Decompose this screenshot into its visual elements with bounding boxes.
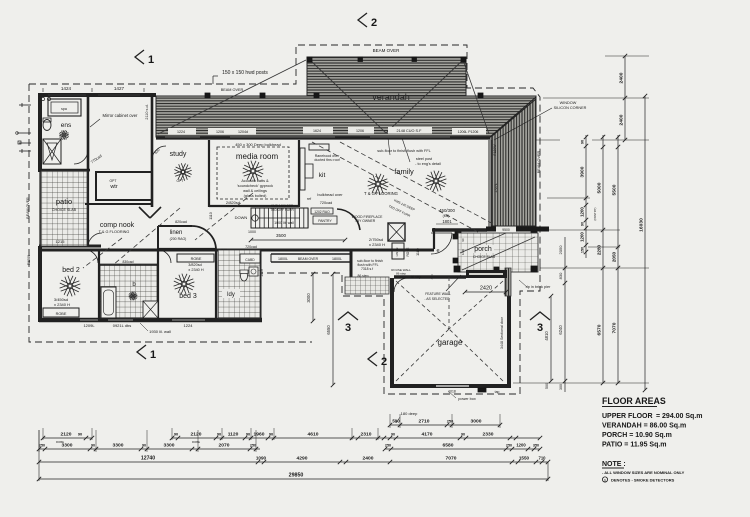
entry steps bbox=[345, 277, 389, 294]
floor areas porch bbox=[602, 432, 672, 439]
right dim col C bbox=[612, 135, 621, 385]
section marker 3 left bbox=[338, 312, 358, 334]
wall entry/porch bbox=[433, 228, 435, 249]
right ext line 3 bbox=[536, 139, 649, 141]
comp nook diagonal bbox=[106, 208, 180, 271]
patio tiled floor bbox=[41, 171, 87, 246]
ens shower bbox=[43, 139, 61, 164]
label 2110 rotated bbox=[145, 104, 149, 119]
bottom row1 right bbox=[388, 419, 502, 428]
right ext line 7 bbox=[513, 382, 649, 384]
kit tall bench bbox=[300, 148, 305, 190]
label 820 door bbox=[221, 248, 227, 252]
linen curved wall bbox=[192, 226, 216, 250]
entry threshold recess bbox=[466, 270, 507, 278]
wall ens bottom bbox=[39, 169, 90, 172]
porch tiles bbox=[458, 233, 538, 272]
dim 1424 bbox=[43, 86, 92, 92]
note line 2 bbox=[602, 477, 674, 483]
window 0921L bbox=[108, 319, 133, 321]
right ext line 6 bbox=[540, 267, 649, 269]
bottom row5 29850 bbox=[37, 473, 550, 482]
band window 1624 bbox=[300, 136, 335, 138]
verandah hip into band right bbox=[463, 60, 489, 134]
kit label bbox=[319, 172, 326, 179]
window 1224 bed3 bbox=[172, 319, 205, 321]
band label patches bbox=[168, 127, 486, 135]
bath shower bbox=[143, 301, 158, 318]
ens label bbox=[61, 122, 72, 129]
bed3 fan bbox=[174, 274, 195, 295]
post leader 150x150 bbox=[213, 70, 268, 84]
verandah post f bbox=[478, 93, 483, 98]
left edge mark 2 bbox=[16, 132, 31, 135]
step note bbox=[357, 274, 368, 278]
stairs treads bbox=[251, 208, 308, 228]
note title bbox=[602, 461, 626, 468]
media acoustic note bbox=[237, 179, 273, 198]
bath walls bbox=[99, 250, 158, 320]
kit rangehood note bbox=[314, 154, 340, 162]
family glass wall right bbox=[489, 140, 492, 228]
family fan 2 bbox=[426, 171, 447, 192]
patio dim 1215 bbox=[56, 239, 66, 244]
garage bottom fittings bbox=[436, 386, 499, 394]
fireplace hob note bbox=[270, 204, 294, 212]
garage door dim bbox=[463, 286, 508, 295]
mirror cabinet note bbox=[90, 113, 138, 127]
hall angled walls bbox=[139, 207, 161, 218]
wall left ens bbox=[38, 93, 42, 172]
band window labels bbox=[177, 129, 478, 134]
label 720cad small bbox=[245, 245, 257, 249]
bed3 door arc bbox=[158, 250, 171, 263]
eaves dashed outline left/bottom bbox=[29, 84, 312, 342]
window 1209L bbox=[80, 319, 98, 321]
band window 2148 bbox=[370, 136, 450, 138]
note line 1 bbox=[602, 470, 685, 475]
linen walls bbox=[158, 226, 192, 249]
dim 1427 bbox=[114, 86, 144, 92]
right dim col B bbox=[597, 135, 606, 385]
bed3 label bbox=[179, 293, 197, 300]
verandah hip roof diagonal left bbox=[309, 59, 386, 133]
bedroom corridor wall bbox=[39, 249, 351, 252]
porch left tiny dims bbox=[461, 238, 465, 255]
ens door arc bbox=[74, 150, 88, 164]
family t&g bbox=[364, 191, 398, 196]
verandah post d bbox=[307, 57, 312, 62]
right dim col E bbox=[639, 94, 648, 392]
family note steel post bbox=[402, 138, 441, 166]
label 1009 rotated bbox=[260, 269, 264, 277]
kit 1202 rao bbox=[311, 208, 333, 214]
left edge mark 3 bbox=[18, 141, 31, 144]
verandah corner mitre seam bbox=[490, 97, 536, 137]
band window 2048 bbox=[230, 136, 300, 138]
beam over label left small bbox=[221, 88, 244, 92]
right ext line 4 bbox=[547, 197, 590, 199]
floor areas verandah bbox=[602, 423, 686, 430]
verandah roof upper hatched block bbox=[307, 57, 466, 97]
ens wc bbox=[43, 118, 51, 131]
linen cupboard entry bbox=[392, 243, 404, 259]
garage roof dashed d bbox=[449, 329, 503, 381]
verandah post e bbox=[461, 57, 466, 62]
garage bottom wall bbox=[390, 384, 511, 388]
garage roof dashed a bbox=[396, 281, 449, 329]
f1209 rotated bbox=[27, 255, 31, 265]
garage left wall bbox=[390, 278, 394, 386]
comp nook label bbox=[99, 222, 135, 234]
section marker 1 bottom bbox=[137, 345, 156, 361]
ens basin fan bbox=[59, 130, 69, 140]
window labels bottom wall bbox=[83, 323, 193, 328]
verandah main hatched band bbox=[156, 96, 536, 137]
linen bottom wall bbox=[158, 248, 216, 250]
sd note 2/750 bbox=[369, 237, 385, 247]
family fan 1 bbox=[368, 174, 389, 195]
wall top-left exterior bbox=[39, 93, 156, 97]
media walls left bbox=[208, 140, 210, 207]
comp nook door arc bbox=[88, 233, 102, 247]
bottom row2 left bbox=[41, 432, 94, 441]
wall left bed2 bbox=[38, 246, 42, 322]
right ext line top bbox=[605, 55, 649, 57]
porch bottom posts bbox=[454, 266, 537, 272]
family raked ceiling line 2 bbox=[340, 142, 497, 226]
label 450 rotated bbox=[430, 274, 434, 279]
media walls right bbox=[298, 140, 300, 207]
patio left edge bbox=[39, 172, 41, 246]
floor areas title bbox=[602, 396, 666, 407]
media bulkhead dashed rect bbox=[217, 147, 289, 199]
section marker 1 top bbox=[135, 50, 154, 66]
right dim col A pantry note bbox=[593, 207, 597, 220]
verandah post e2 bbox=[358, 57, 363, 62]
feature wall note bbox=[424, 275, 461, 301]
eaves dashed outline top/right bbox=[29, 45, 540, 264]
stairs down label bbox=[235, 215, 259, 221]
post leader dash bbox=[218, 71, 222, 73]
ens spa bbox=[48, 99, 81, 116]
verandah post e3 bbox=[412, 57, 417, 62]
kit pantry bbox=[313, 216, 337, 224]
kit island bench bbox=[271, 254, 351, 262]
media wall bottom bbox=[209, 205, 299, 207]
floor areas upper bbox=[602, 413, 703, 420]
bottom left vert line bbox=[38, 430, 40, 481]
study label bbox=[170, 151, 187, 158]
wall patio right bbox=[87, 172, 89, 247]
kit bench top bbox=[309, 144, 329, 150]
family note subfloor bbox=[377, 138, 431, 155]
bottom right vert line bbox=[547, 462, 549, 481]
bath door label bbox=[122, 260, 133, 264]
band window 1224 bbox=[165, 136, 200, 138]
dim 3500 bbox=[248, 230, 347, 242]
hall diagonal bbox=[195, 193, 253, 240]
left edge mark 4 bbox=[19, 149, 31, 153]
linen label bbox=[170, 220, 187, 241]
dim 6240 vertical bbox=[558, 237, 567, 392]
garage label bbox=[438, 338, 463, 347]
label 1110 rotated bbox=[209, 212, 213, 219]
bed3 wall right bbox=[215, 250, 217, 320]
garage roof dashed c bbox=[396, 329, 449, 381]
dim 6550 vertical bbox=[326, 272, 335, 387]
section marker 2 top bbox=[358, 13, 377, 29]
left edge mark 1 bbox=[19, 103, 31, 107]
study fan bbox=[174, 163, 191, 180]
bottom row4 bbox=[37, 456, 550, 465]
porch diagonal 1 bbox=[462, 237, 535, 270]
porch diagonal 2 bbox=[460, 233, 506, 253]
bedroom bottom exterior wall bbox=[39, 318, 262, 323]
bottom extension lines bbox=[39, 414, 500, 452]
section marker 2 mid bbox=[368, 352, 387, 368]
media fan bbox=[243, 161, 264, 182]
verandah hip into band left bbox=[158, 60, 306, 134]
bottom row2 mid bbox=[170, 432, 542, 441]
bed2 fan bbox=[60, 276, 81, 297]
porch bottom wall bbox=[466, 274, 500, 278]
verandah hip roof diagonal right bbox=[386, 59, 464, 133]
wall ens/wir right bbox=[87, 95, 90, 172]
comp nook wir bottom wall bbox=[85, 203, 152, 205]
bath tiles bbox=[100, 264, 158, 318]
right dim col A bbox=[580, 135, 589, 258]
wall below verandah band bbox=[156, 136, 490, 139]
porch beam label bbox=[496, 227, 516, 233]
bottom row3 right bbox=[383, 443, 542, 452]
right ext line 2 bbox=[543, 97, 649, 99]
family bottom wall bbox=[351, 250, 434, 280]
bed2 sd note bbox=[54, 297, 70, 307]
dim 450/300 bbox=[436, 208, 458, 224]
entry door arc bbox=[431, 233, 452, 254]
label 1180 rotated bbox=[416, 248, 420, 256]
wall bedroom right bbox=[259, 249, 262, 322]
bath label bbox=[129, 282, 138, 300]
bed2 door arc bbox=[85, 250, 98, 263]
wir box bbox=[96, 172, 152, 200]
stairs wall note bbox=[274, 221, 294, 225]
family raked text bbox=[388, 198, 416, 218]
ldy wc bbox=[240, 270, 248, 281]
entry label bbox=[436, 248, 439, 254]
ldy cabd bbox=[240, 254, 260, 263]
porch label bbox=[470, 245, 496, 259]
porch top beam bbox=[486, 227, 549, 232]
media room label bbox=[236, 152, 279, 161]
bed2 robe bbox=[43, 308, 79, 317]
ldy sink bbox=[249, 267, 258, 276]
label robe rotated bbox=[406, 247, 410, 256]
verandah post a bbox=[205, 93, 210, 98]
wall patio bottom bbox=[39, 245, 101, 248]
bottom row3 left bbox=[37, 443, 260, 452]
stairs arrow bbox=[258, 217, 300, 219]
porch top wall bbox=[432, 228, 487, 232]
section marker 3 right bbox=[530, 312, 550, 334]
right band rotated labels bbox=[493, 144, 498, 193]
garage roof dashed b bbox=[449, 281, 503, 329]
garage 86 step note bbox=[391, 268, 421, 279]
window silicon corner note bbox=[494, 101, 587, 140]
power box note bbox=[448, 391, 476, 401]
bed3 robe bbox=[177, 254, 214, 272]
garage top wall bbox=[394, 275, 466, 278]
garage roof dashed vertical bbox=[448, 277, 450, 329]
dim 4810 vertical bbox=[544, 294, 553, 389]
media bulkhead note bbox=[235, 142, 281, 147]
verandah post h bbox=[455, 231, 461, 237]
subfloor note entry bbox=[357, 259, 383, 271]
bottom row2 robe2 bbox=[192, 440, 200, 444]
eaves dashed near porch bbox=[258, 264, 540, 394]
bottom row2 robe bbox=[56, 440, 64, 444]
ldy label bbox=[222, 289, 240, 298]
patio label bbox=[52, 197, 77, 212]
family raked ceiling line 1 bbox=[312, 142, 478, 232]
dim 3000 vertical bbox=[306, 272, 315, 323]
verandah label bbox=[372, 92, 410, 102]
window 1424 line bbox=[48, 94, 86, 96]
bed2 label bbox=[62, 267, 80, 274]
right ext line porch bbox=[588, 246, 620, 248]
verandah post c bbox=[314, 93, 319, 98]
fireplace note bbox=[352, 215, 383, 223]
beam over label top box bbox=[373, 48, 401, 53]
right dim col D bbox=[619, 54, 628, 142]
note 1930 wall bbox=[140, 323, 171, 334]
verandah post b bbox=[260, 93, 265, 98]
kit ref box bbox=[305, 164, 313, 201]
garage right wall bbox=[505, 268, 511, 386]
bath tub bbox=[101, 287, 116, 318]
beam over rotated patio bbox=[26, 197, 30, 219]
wir note 770cad bbox=[90, 154, 103, 164]
floor areas patio bbox=[602, 442, 667, 449]
pantry curved wall bbox=[337, 209, 360, 230]
kit bulkhead note bbox=[317, 192, 343, 205]
dp brick pier note bbox=[519, 280, 551, 289]
verandah post g bbox=[531, 231, 537, 237]
wall study left bbox=[151, 95, 154, 207]
downpipe circles bbox=[41, 97, 50, 100]
wood fireplace box bbox=[388, 223, 405, 241]
study opt bbox=[177, 179, 184, 183]
porch left piers bbox=[453, 234, 458, 263]
hall door arc study bbox=[152, 146, 166, 160]
window 1427 line bbox=[98, 94, 140, 96]
right ext line 5 bbox=[547, 229, 620, 231]
garage sect door bbox=[500, 316, 504, 349]
verandah right vertical hatched band bbox=[491, 99, 536, 226]
media 2/820sd bbox=[226, 200, 240, 205]
family label bbox=[394, 167, 414, 176]
note 180 deep bbox=[396, 411, 418, 423]
ldy tiles bbox=[218, 250, 260, 318]
bed2 diagonal bbox=[83, 238, 122, 268]
garage door arc bbox=[394, 278, 408, 292]
beam over rotated right bbox=[537, 150, 541, 173]
